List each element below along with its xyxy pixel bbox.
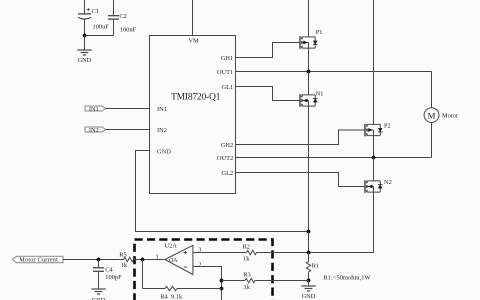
transistor P1 PMOS high-side [300,29,322,49]
svg-text:C4: C4 [105,267,113,274]
transistor N2 NMOS low-side [365,179,392,193]
svg-text:1k: 1k [243,256,250,263]
wire IN2 to IC [106,129,150,131]
transistor N1 NMOS low-side [300,91,324,107]
svg-text:IN1: IN1 [89,106,99,113]
svg-text:2: 2 [198,261,201,268]
svg-text:R2: R2 [243,244,250,251]
svg-text:IN2: IN2 [157,127,167,134]
node R1 bottom junction [307,279,311,283]
wire op-amp pin2 feedback [193,267,222,300]
svg-text:TMI8720-Q1: TMI8720-Q1 [171,91,221,102]
wire OUT2 to N2 drain [373,158,375,181]
IC U1 TMI8720-Q1 [150,36,236,194]
svg-text:1k: 1k [121,262,128,269]
wire supply rail to P2 drain [373,0,375,124]
svg-text:U2A: U2A [165,242,178,249]
svg-text:GND: GND [157,149,171,156]
wire motor upper lead [431,72,433,108]
svg-text:M: M [428,110,436,120]
wire GH1 to P1 gate [236,43,301,58]
wire GL1 to N1 gate [236,87,301,101]
resistor R4 9.1k [143,286,222,300]
op-amp U2A [156,242,202,274]
svg-text:GH1: GH1 [221,55,233,62]
resistor R2 1k [243,244,257,263]
svg-text:GND: GND [78,57,92,64]
ground symbol GND (under C4) [91,289,106,300]
svg-text:R1:<50mohm,1W: R1:<50mohm,1W [324,274,372,281]
motor M [424,108,459,123]
resistor R1 sense (vertical) [306,262,319,281]
wire motor lower lead [431,123,433,158]
wire R3 to R1 bottom [255,280,309,282]
svg-text:100pF: 100pF [105,274,122,281]
wire GL2 to N2 gate [236,173,366,187]
wire op-amp pin3 to R2 [193,252,247,254]
capacitor C2 100nF [108,13,137,36]
node OUT2 junction [372,156,376,160]
wire IN1 to IC [106,108,150,110]
wire OUT2 to motor phase B [236,157,432,159]
svg-text:C2: C2 [119,13,126,20]
capacitor C4 100pF [93,260,122,290]
svg-text:R5: R5 [119,251,126,258]
wire OUT1 to motor phase A [236,71,432,73]
svg-text:C1: C1 [92,8,99,15]
wire sense node down [308,232,310,253]
svg-text:GH2: GH2 [221,142,233,149]
wire GH2 to P2 gate [236,130,366,145]
node C4 tap junction [97,258,101,262]
svg-text:1: 1 [156,253,159,260]
svg-text:N1: N1 [316,91,324,98]
svg-text:VM: VM [188,38,199,45]
wire VM supply [192,0,194,36]
svg-text:IN1: IN1 [157,106,167,113]
node pin2/R4 junction [220,287,224,291]
svg-text:R1: R1 [312,263,319,270]
wire R1 bottom to ground [308,281,310,287]
wire OUT1 to N1 drain [308,72,310,95]
svg-text:N2: N2 [384,179,392,186]
wire supply rail to C2 [113,0,115,16]
net label Motor Current [13,256,64,263]
net label IN1 [85,106,106,113]
svg-text:Motor Current: Motor Current [19,257,58,264]
svg-text:OA: OA [169,258,178,264]
node C1/C2/GND junction [83,34,87,38]
svg-text:GL2: GL2 [221,170,233,177]
resistor R3 1k [222,271,256,291]
resistor R5 1k [119,251,133,269]
wire supply rail to C1 [84,0,86,14]
ground symbol GND (under R1) [301,286,316,300]
wire N2 source to R2 node [309,192,374,252]
svg-text:R4 9.1k: R4 9.1k [160,293,183,300]
svg-text:100uF: 100uF [93,23,110,30]
wire Motor Current to R5 [63,259,124,261]
svg-text:100nF: 100nF [120,26,137,33]
svg-text:1k: 1k [244,284,251,291]
svg-text:GND: GND [302,293,316,300]
node pin2/R3 junction [220,279,224,283]
wire R4 tap down [142,260,144,289]
node R4 tap junction [141,258,145,262]
svg-text:OUT1: OUT1 [217,69,233,76]
svg-text:P1: P1 [316,29,323,36]
node R2 tap junction [307,251,311,255]
transistor P2 PMOS high-side [365,123,391,137]
ground (top-left) [84,36,86,51]
svg-text:P2: P2 [384,123,391,130]
wire R5 to op-amp output [134,259,165,261]
svg-text:OUT2: OUT2 [217,155,233,162]
wire P1 source to OUT1 [308,48,310,71]
svg-text:Motor: Motor [442,113,459,120]
ground symbol GND (top-left) [77,50,92,64]
wire C1 to C2 bottom [85,35,114,37]
capacitor C1 100uF (polarized) [78,8,109,35]
wire P2 source to OUT2 [373,136,375,158]
wire N1 source to sense node [308,106,310,231]
wire R2 tap to R1 [308,253,310,262]
net label IN2 [85,127,106,134]
wire IC GND pin to sense node [136,151,309,232]
wire supply rail to P1 drain [308,0,310,37]
node sense-top junction [307,230,311,234]
wire R2 to sense tap [257,252,309,254]
dashed box current-sense amplifier block [135,240,273,300]
svg-text:IN2: IN2 [89,127,99,134]
node OUT1 junction [307,70,311,74]
svg-text:GL1: GL1 [221,84,233,91]
svg-text:R3: R3 [243,271,250,278]
